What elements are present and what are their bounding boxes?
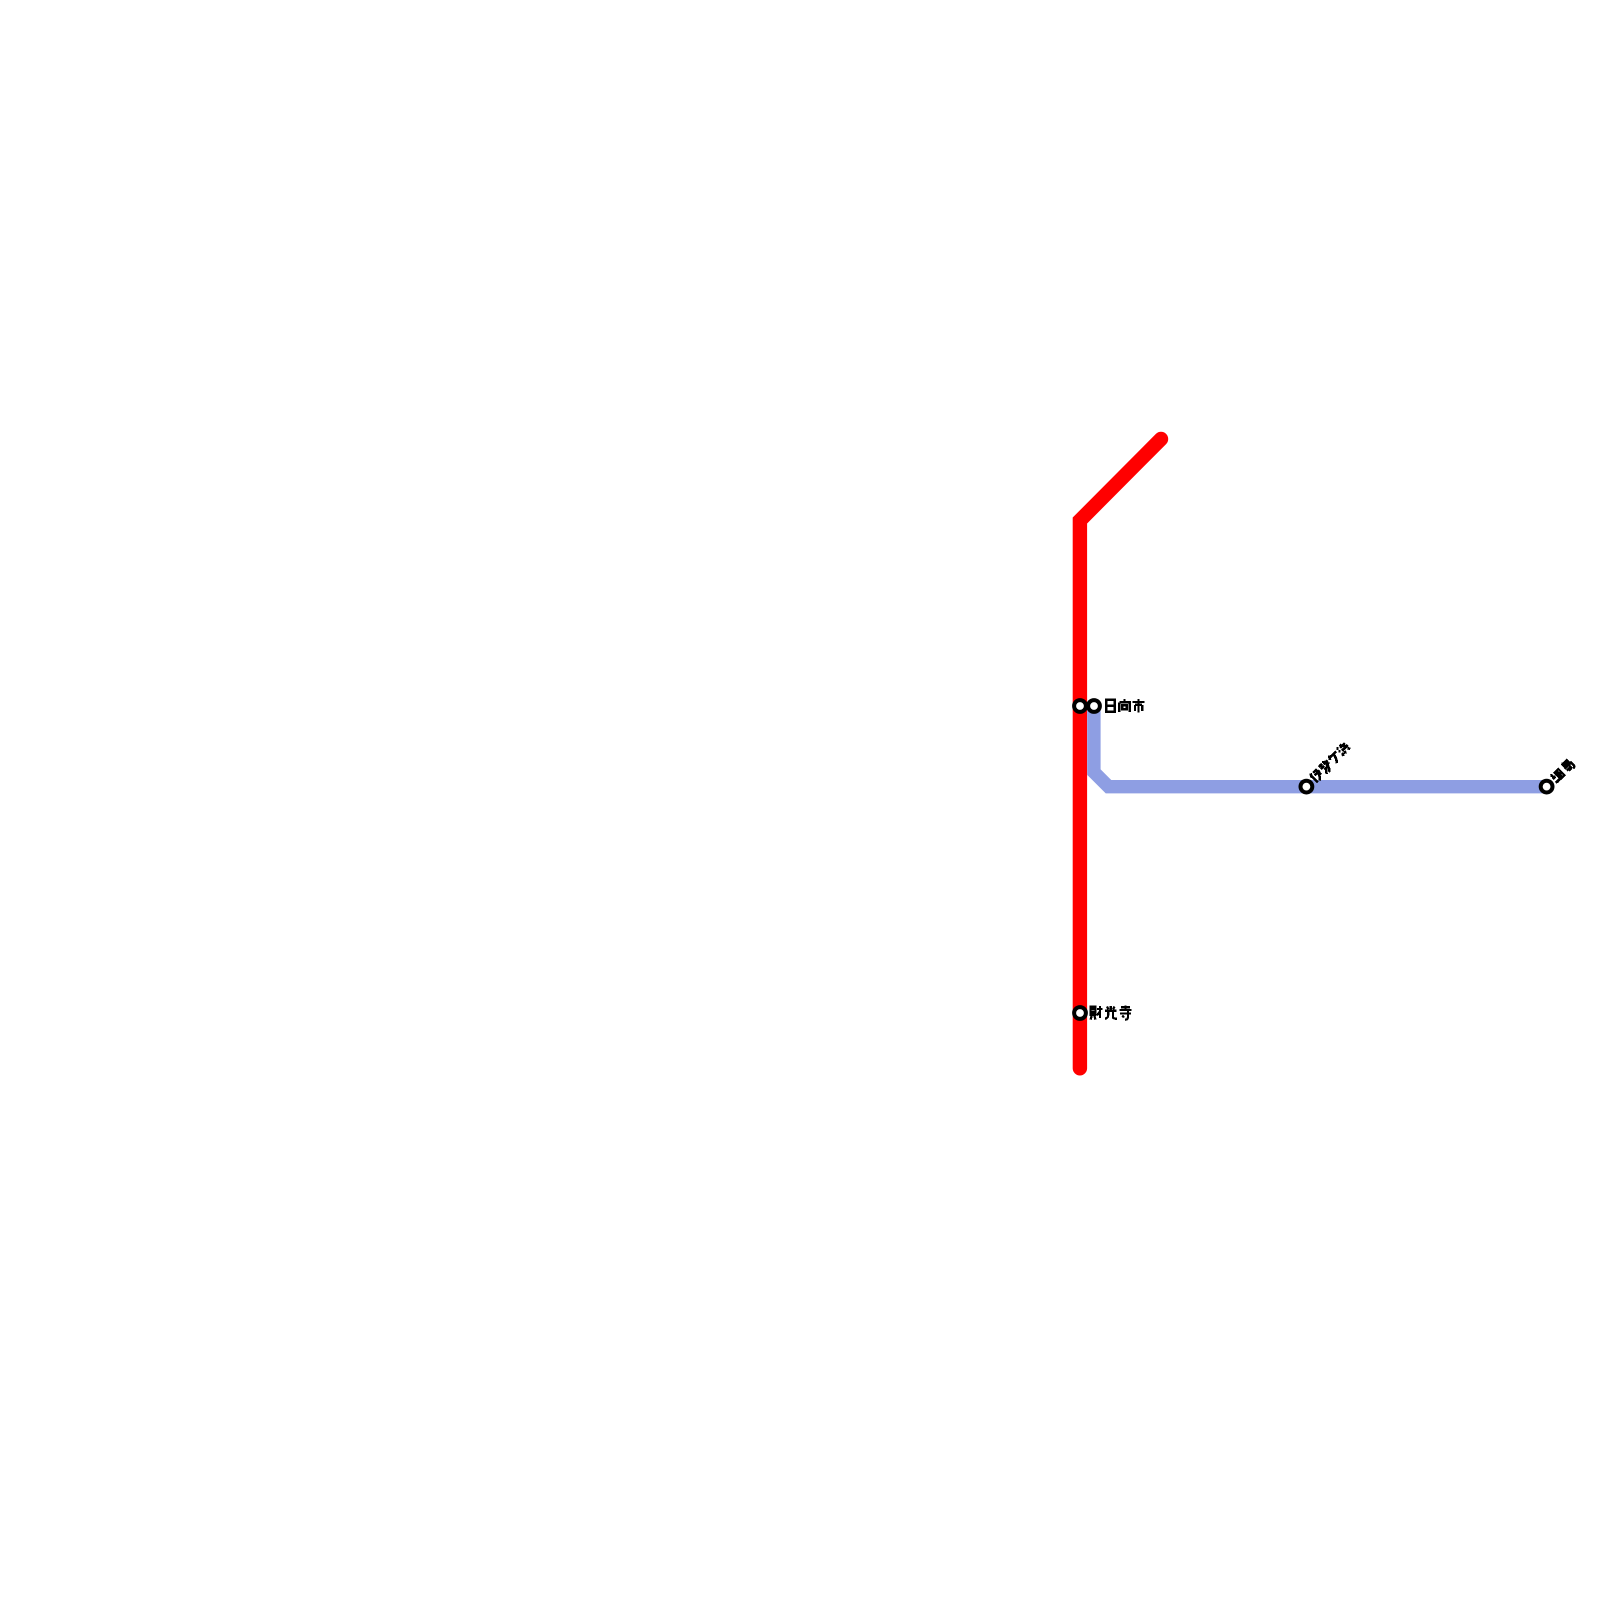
station Isegahama circle	[1301, 781, 1313, 793]
station Zaikoji circle	[1074, 1007, 1086, 1019]
station Hyugashi circle B (on blue line)	[1088, 700, 1100, 712]
blue line: Hosojima line	[1094, 706, 1548, 787]
station Hyugashi circle A (on red line)	[1074, 700, 1086, 712]
station Hosojima circle	[1541, 781, 1553, 793]
red line: Nippo main line	[1080, 439, 1161, 1068]
label Isegahama (rotated 45)	[1309, 741, 1352, 784]
label Hosojima (rotated 45)	[1549, 758, 1574, 783]
label Zaikoji (horizontal)	[1091, 1005, 1132, 1019]
label Hyugashi (horizontal)	[1106, 699, 1144, 713]
